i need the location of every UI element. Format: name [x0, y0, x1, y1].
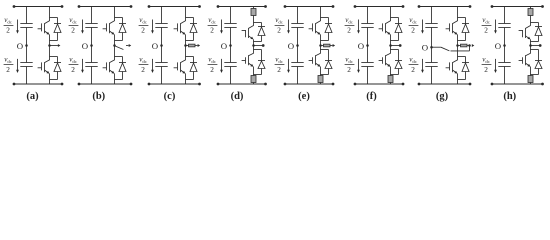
node midpoint (d): [252, 44, 255, 47]
wire top rail (f): [355, 6, 403, 8]
label (f): [366, 91, 377, 102]
wire C1 to node O (g): [431, 28, 433, 46]
fuse F2 (h): [528, 76, 533, 83]
node bottom rail right terminal (b): [130, 83, 133, 86]
capacitor C1 (g): [425, 24, 437, 28]
wire C1 to node O (b): [91, 28, 93, 46]
wire T1 collector to D1 cathode (b): [115, 17, 123, 19]
wire T1 emitter to midpoint (b): [114, 35, 116, 46]
capacitor C2 (g): [425, 63, 437, 67]
node top rail left terminal (h): [491, 5, 494, 8]
open switch blade (b): [115, 46, 124, 50]
node bottom rail right terminal (f): [402, 83, 405, 86]
igbt T2 (d): [242, 53, 254, 66]
svg-text:O: O: [495, 41, 501, 51]
label Vdc/2 lower (b): [69, 56, 79, 74]
wire midpoint to fuse F3 (c): [186, 45, 189, 47]
wire node O to C2 (f): [367, 46, 369, 63]
wire D1 anode corner (c): [186, 40, 194, 42]
capacitor C1 (e): [291, 24, 303, 28]
node midpoint (g): [456, 44, 459, 47]
igbt T1 (a): [38, 21, 50, 35]
wire C2 to bottom rail (b): [91, 67, 93, 85]
wire C1 to node O (h): [504, 28, 506, 46]
diode D2 (h): [535, 55, 542, 75]
wire top rail to C1 (d): [230, 7, 232, 24]
diode D1 (e): [325, 18, 332, 41]
svg-text:2: 2: [277, 26, 281, 35]
svg-text:vdc: vdc: [345, 16, 353, 24]
wire T1 collector to D1 cathode (h): [531, 22, 539, 24]
wire phase output (b): [126, 45, 129, 47]
wire D2 anode corner (a): [50, 79, 58, 81]
svg-text:2: 2: [210, 65, 214, 74]
node top rail left terminal (c): [148, 5, 151, 8]
label O (h): [495, 41, 501, 51]
wire midpoint to T2 collector (d): [253, 46, 255, 54]
capacitor C2 (b): [85, 63, 97, 67]
label O (c): [152, 41, 158, 51]
svg-text:2: 2: [6, 26, 10, 35]
svg-text:vdc: vdc: [208, 56, 216, 64]
wire fuse F2 to bottom rail (h): [530, 83, 532, 85]
label Vdc/2 upper (g): [409, 16, 419, 34]
wire T1 collector to D1 cathode (c): [186, 17, 194, 19]
wire T2 emitter to bottom rail (g): [457, 74, 459, 85]
wire node O to C2 (e): [297, 46, 299, 63]
label Vdc/2 lower (h): [482, 56, 492, 74]
wire top rail to fuse F1 (h): [530, 7, 532, 9]
igbt T2 (c): [174, 60, 186, 74]
svg-text:2: 2: [210, 26, 214, 35]
wire top rail (h): [492, 6, 543, 8]
label O (f): [358, 41, 364, 51]
capacitor C2 (f): [361, 63, 373, 67]
wire top rail to T1 collector (c): [185, 7, 187, 22]
svg-text:(g): (g): [436, 91, 449, 102]
voltage arrow lower (f): [357, 59, 360, 73]
fuse F1 (h): [528, 9, 533, 16]
wire midpoint to T2 collector (a): [49, 46, 51, 61]
svg-text:O: O: [288, 41, 294, 51]
wire midpoint to fuse F3 (g): [458, 45, 461, 47]
wire phase output (f): [391, 45, 400, 47]
label O (b): [82, 41, 88, 51]
node phase output terminal (f): [399, 44, 402, 47]
voltage arrow lower (e): [287, 59, 290, 73]
node top rail right terminal (g): [469, 5, 472, 8]
voltage arrow lower (h): [494, 59, 497, 73]
wire fuse F3 to output node (g): [467, 45, 471, 47]
wire node O to C2 (b): [91, 46, 93, 63]
wire node O to C2 (c): [161, 46, 163, 63]
wire midpoint to T2 collector (h): [530, 46, 532, 54]
node top rail right terminal (f): [402, 5, 405, 8]
wire T2 emitter to fuse F2 (f): [390, 67, 392, 76]
label Vdc/2 lower (d): [208, 56, 218, 74]
label Vdc/2 lower (f): [345, 56, 355, 74]
node bottom rail left terminal (a): [13, 83, 16, 86]
node bottom rail left terminal (g): [418, 83, 421, 86]
diode D1 (c): [190, 18, 197, 41]
diode D2 (a): [54, 57, 61, 80]
wire D1 anode corner (e): [321, 40, 329, 42]
svg-text:vdc: vdc: [208, 16, 216, 24]
voltage arrow lower (d): [220, 59, 223, 73]
node O (a): [25, 44, 28, 47]
phase output arrow (a): [58, 44, 61, 47]
wire D1 anode corner (a): [50, 40, 58, 42]
node top rail left terminal (e): [284, 5, 287, 8]
svg-text:2: 2: [6, 65, 10, 74]
igbt T2 (a): [38, 60, 50, 74]
wire T2 collector to D2 cathode (a): [50, 56, 58, 58]
wire T1 emitter to midpoint (d): [253, 39, 255, 45]
wire T1 emitter to midpoint (f): [390, 35, 392, 46]
label (a): [26, 91, 39, 102]
igbt T1 (f): [379, 21, 391, 35]
wire midpoint jog to D2 cathode (h): [531, 50, 539, 56]
voltage arrow lower (b): [81, 59, 84, 73]
node top rail right terminal (h): [541, 5, 544, 8]
wire midpoint to T2 collector (e): [320, 46, 322, 54]
label (b): [92, 91, 105, 102]
node bottom rail left terminal (h): [491, 83, 494, 86]
wire top rail (a): [14, 6, 62, 8]
node top rail left terminal (b): [78, 5, 81, 8]
label Vdc/2 upper (f): [345, 16, 355, 34]
wire T1 collector to D1 cathode (g): [458, 17, 466, 19]
svg-text:2: 2: [347, 26, 351, 35]
wire T1 emitter to midpoint (h): [530, 39, 532, 45]
label (e): [298, 91, 310, 102]
wire top rail (b): [79, 6, 131, 8]
svg-text:vdc: vdc: [69, 56, 77, 64]
voltage arrow upper (h): [494, 20, 497, 34]
wire bottom rail (e): [285, 83, 333, 85]
svg-text:vdc: vdc: [482, 56, 490, 64]
svg-text:vdc: vdc: [275, 56, 283, 64]
label O (g): [422, 43, 428, 53]
node midpoint (a): [48, 44, 51, 47]
node bottom rail right terminal (d): [264, 83, 267, 86]
wire midpoint jog to D2 cathode (f): [391, 50, 399, 56]
label (g): [436, 91, 449, 102]
wire bottom rail (c): [149, 83, 200, 85]
svg-text:2: 2: [71, 26, 75, 35]
wire top rail to C1 (f): [367, 7, 369, 24]
svg-text:(h): (h): [503, 91, 516, 102]
wire fuse F3 to output (e): [330, 45, 333, 47]
wire T1 emitter to midpoint (g): [457, 35, 459, 46]
svg-text:vdc: vdc: [4, 56, 12, 64]
node bottom rail right terminal (e): [332, 83, 335, 86]
phase output arrow (g): [472, 44, 475, 47]
wire bottom rail (h): [492, 83, 543, 85]
node midpoint (h): [529, 44, 532, 47]
igbt T1 (h): [519, 26, 531, 40]
wire fuse F2 to bottom rail (f): [390, 83, 392, 85]
svg-text:vdc: vdc: [139, 56, 147, 64]
wire top rail to C1 (b): [91, 7, 93, 24]
wire top rail to T1 collector (g): [457, 7, 459, 22]
svg-text:(d): (d): [231, 91, 244, 102]
wire bypass to output node (g): [451, 46, 470, 51]
wire T1 collector to D1 cathode (a): [50, 17, 58, 19]
node midpoint (f): [389, 44, 392, 47]
node O (e): [296, 44, 299, 47]
node top rail left terminal (f): [354, 5, 357, 8]
svg-text:vdc: vdc: [275, 16, 283, 24]
diode D2 (e): [325, 55, 332, 75]
node midpoint (b): [113, 44, 116, 47]
wire C2 to bottom rail (c): [161, 67, 163, 85]
wire C2 to bottom rail (a): [26, 67, 28, 85]
diode D1 (h): [535, 23, 542, 42]
wire node O to C2 (h): [504, 46, 506, 63]
label Vdc/2 upper (a): [4, 16, 14, 34]
wire fuse F1 to T1 collector (d): [253, 16, 255, 26]
wire fuse F1 to T1 collector (h): [530, 16, 532, 26]
wire T2 emitter to bottom rail (b): [114, 74, 116, 85]
wire bottom rail (g): [419, 83, 470, 85]
diode D1 (a): [54, 18, 61, 41]
igbt T1 (g): [446, 21, 458, 35]
wire C1 to node O (c): [161, 28, 163, 46]
wire node O to bypass switch (g): [432, 46, 441, 48]
fuse F1 (d): [251, 9, 256, 16]
label Vdc/2 upper (b): [69, 16, 79, 34]
node top rail left terminal (g): [418, 5, 421, 8]
wire top rail (d): [218, 6, 266, 8]
node phase output terminal (d): [262, 44, 265, 47]
svg-text:vdc: vdc: [409, 56, 417, 64]
phase output arrow (b): [129, 44, 132, 47]
capacitor C2 (c): [155, 63, 167, 67]
wire midpoint to T2 collector (g): [457, 46, 459, 61]
igbt T1 (c): [174, 21, 186, 35]
wire bottom rail (a): [14, 83, 62, 85]
svg-text:O: O: [17, 41, 23, 51]
svg-text:2: 2: [141, 65, 145, 74]
igbt T2 (e): [309, 53, 321, 66]
node output junction (g): [468, 44, 471, 47]
diode D1 (g): [462, 18, 469, 41]
svg-text:O: O: [221, 41, 227, 51]
label (h): [503, 91, 516, 102]
wire C1 to node O (e): [297, 28, 299, 46]
wire top rail to T1 collector (f): [390, 7, 392, 22]
label Vdc/2 lower (c): [139, 56, 149, 74]
node top rail left terminal (a): [13, 5, 16, 8]
wire midpoint to T2 collector (b): [114, 46, 116, 61]
node top rail right terminal (a): [61, 5, 64, 8]
voltage arrow upper (e): [287, 20, 290, 34]
diode D2 (g): [462, 57, 469, 80]
wire D1 anode corner (h): [531, 41, 539, 43]
node bottom rail left terminal (c): [148, 83, 151, 86]
wire top rail to T1 collector (b): [114, 7, 116, 22]
svg-text:(e): (e): [298, 91, 310, 102]
voltage arrow upper (g): [421, 20, 424, 34]
fuse F2 (f): [388, 76, 393, 83]
svg-text:2: 2: [141, 26, 145, 35]
svg-text:(b): (b): [92, 91, 105, 102]
wire T1 collector to D1 cathode (e): [321, 17, 329, 19]
wire midpoint jog to D2 cathode (d): [254, 50, 262, 56]
label Vdc/2 upper (c): [139, 16, 149, 34]
wire D1 anode corner (f): [391, 40, 399, 42]
node bottom rail right terminal (g): [469, 83, 472, 86]
label Vdc/2 upper (d): [208, 16, 218, 34]
wire top rail (e): [285, 6, 333, 8]
wire top rail to C1 (h): [504, 7, 506, 24]
wire bottom rail (f): [355, 83, 403, 85]
capacitor C2 (e): [291, 63, 303, 67]
diode D2 (d): [258, 55, 265, 75]
label Vdc/2 lower (a): [4, 56, 14, 74]
svg-text:vdc: vdc: [345, 56, 353, 64]
node bottom rail right terminal (a): [61, 83, 64, 86]
node O (b): [90, 44, 93, 47]
igbt T2 (f): [379, 53, 391, 66]
wire T1 collector to D1 cathode (f): [391, 17, 399, 19]
svg-text:(f): (f): [366, 91, 377, 102]
igbt T2 (g): [446, 60, 458, 74]
wire T2 emitter to bottom rail (c): [185, 74, 187, 85]
diode D1 (f): [395, 18, 402, 41]
fuse F3 (g): [461, 44, 468, 47]
fuse F2 (d): [251, 76, 256, 83]
capacitor C1 (f): [361, 24, 373, 28]
wire T2 emitter to bottom rail (a): [49, 74, 51, 85]
wire T2 collector to D2 cathode (b): [115, 56, 123, 58]
label O (a): [17, 41, 23, 51]
wire node O to C2 (a): [26, 46, 28, 63]
wire top rail to C1 (g): [431, 7, 433, 24]
wire C1 to node O (d): [230, 28, 232, 46]
fuse F3 (e): [324, 44, 331, 47]
node midpoint (e): [319, 44, 322, 47]
node bottom rail left terminal (d): [217, 83, 220, 86]
svg-text:O: O: [152, 41, 158, 51]
node midpoint (c): [184, 44, 187, 47]
capacitor C1 (c): [155, 24, 167, 28]
wire phase output (d): [254, 45, 263, 47]
wire fuse F3 to output (c): [195, 45, 198, 47]
capacitor C1 (a): [20, 24, 32, 28]
wire C2 to bottom rail (e): [297, 67, 299, 85]
wire fuse F2 to bottom rail (d): [253, 83, 255, 85]
wire T1 emitter to midpoint (a): [49, 35, 51, 46]
igbt T1 (e): [309, 21, 321, 35]
capacitor C1 (h): [498, 24, 510, 28]
label Vdc/2 upper (e): [275, 16, 285, 34]
node bottom rail right terminal (c): [198, 83, 201, 86]
wire D2 anode corner (c): [186, 79, 194, 81]
voltage arrow upper (a): [16, 20, 19, 34]
svg-text:vdc: vdc: [69, 16, 77, 24]
wire D2 anode corner (h): [531, 74, 539, 76]
capacitor C1 (b): [85, 24, 97, 28]
wire top rail to T1 collector (a): [49, 7, 51, 22]
node O (f): [366, 44, 369, 47]
node top rail left terminal (d): [217, 5, 220, 8]
wire D1 anode corner (b): [115, 40, 123, 42]
capacitor C2 (a): [20, 63, 32, 67]
label (c): [164, 91, 176, 102]
wire T2 collector to D2 cathode (g): [458, 56, 466, 58]
wire top rail (g): [419, 6, 470, 8]
wire C2 to bottom rail (d): [230, 67, 232, 85]
label Vdc/2 lower (g): [409, 56, 419, 74]
wire top rail to T1 collector (e): [320, 7, 322, 22]
wire T1 emitter to midpoint (e): [320, 35, 322, 46]
wire phase output (h): [531, 45, 540, 47]
wire D2 anode corner (b): [115, 79, 123, 81]
capacitor C2 (h): [498, 63, 510, 67]
svg-text:vdc: vdc: [139, 16, 147, 24]
diode D1 (d): [258, 23, 265, 42]
node bottom rail left terminal (f): [354, 83, 357, 86]
wire midpoint to T2 collector (c): [185, 46, 187, 61]
fuse F3 (c): [189, 44, 196, 47]
svg-text:2: 2: [484, 26, 488, 35]
svg-text:(a): (a): [26, 91, 39, 102]
wire C2 to bottom rail (h): [504, 67, 506, 85]
node top rail right terminal (b): [130, 5, 133, 8]
label Vdc/2 lower (e): [275, 56, 285, 74]
wire T1 collector to D1 cathode (d): [254, 22, 262, 24]
wire T2 emitter to fuse F2 (d): [253, 67, 255, 76]
wire bottom rail (b): [79, 83, 131, 85]
label (d): [231, 91, 244, 102]
svg-text:2: 2: [347, 65, 351, 74]
phase output arrow (c): [198, 44, 201, 47]
node top rail right terminal (e): [332, 5, 335, 8]
svg-text:vdc: vdc: [4, 16, 12, 24]
voltage arrow lower (g): [421, 59, 424, 73]
igbt T2 (b): [103, 60, 115, 74]
node top rail right terminal (d): [264, 5, 267, 8]
svg-text:O: O: [422, 43, 428, 53]
wire D1 anode corner (d): [254, 41, 262, 43]
label O (d): [221, 41, 227, 51]
wire bottom rail (d): [218, 83, 266, 85]
voltage arrow upper (b): [81, 20, 84, 34]
igbt T2 (h): [519, 53, 531, 66]
node top rail right terminal (c): [198, 5, 201, 8]
node O (c): [160, 44, 163, 47]
voltage arrow lower (a): [16, 59, 19, 73]
wire T2 emitter to fuse F2 (h): [530, 67, 532, 76]
diode D2 (c): [190, 57, 197, 80]
svg-text:2: 2: [411, 26, 415, 35]
diode D1 (b): [119, 18, 126, 41]
wire phase output (a): [50, 45, 59, 47]
wire top rail to fuse F1 (d): [253, 7, 255, 9]
wire D2 anode corner (e): [321, 74, 329, 76]
phase output arrow (e): [333, 44, 336, 47]
wire fuse F2 to bottom rail (e): [320, 83, 322, 85]
capacitor C1 (d): [224, 24, 236, 28]
wire top rail to C1 (a): [26, 7, 28, 24]
label Vdc/2 upper (h): [482, 16, 492, 34]
node O (d): [229, 44, 232, 47]
igbt T1 (b): [103, 21, 115, 35]
bypass switch blade (g): [441, 47, 450, 51]
svg-text:2: 2: [71, 65, 75, 74]
